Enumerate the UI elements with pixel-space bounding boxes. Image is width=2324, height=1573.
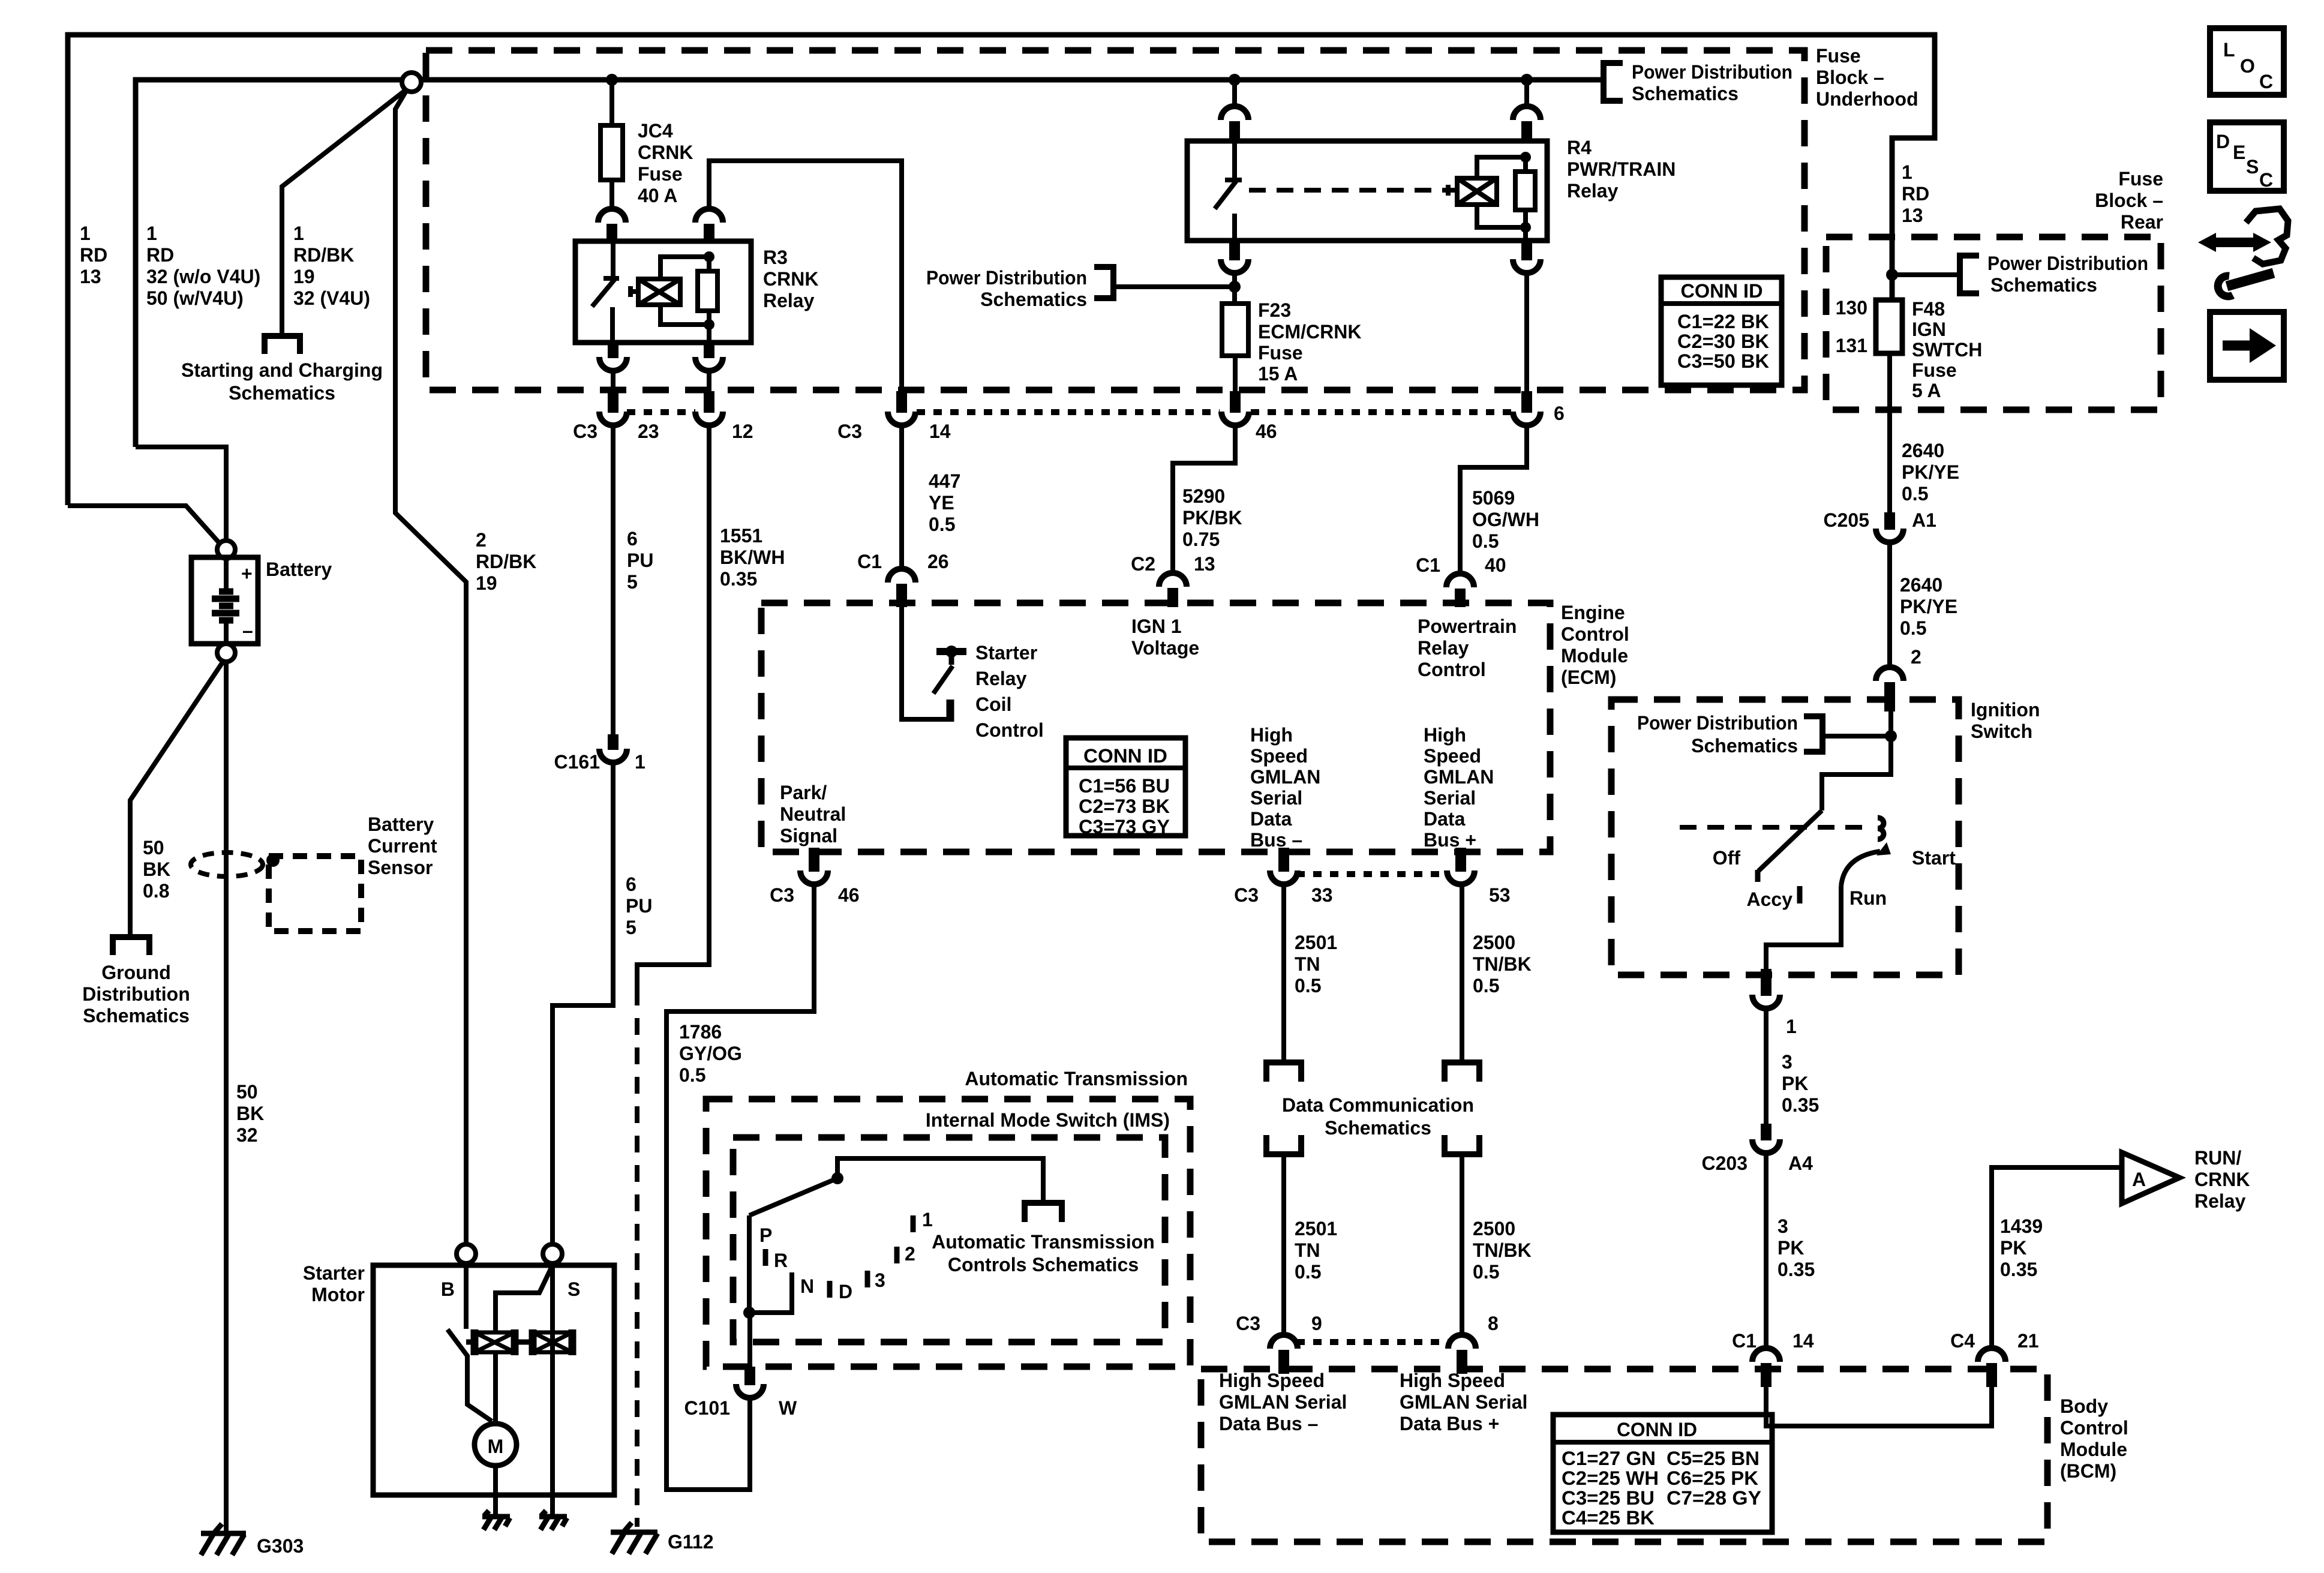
svg-text:JC4: JC4 [638, 120, 673, 142]
svg-text:2640: 2640 [1902, 440, 1944, 461]
svg-text:50: 50 [143, 837, 164, 858]
svg-text:TN/BK: TN/BK [1473, 1239, 1532, 1261]
svg-text:Fuse: Fuse [1258, 342, 1303, 364]
connector 46 at block edge [1221, 391, 1249, 425]
svg-text:GMLAN: GMLAN [1424, 766, 1494, 788]
svg-text:5: 5 [626, 917, 636, 938]
svg-text:14: 14 [1792, 1330, 1814, 1352]
solenoid hold-in winding [533, 1329, 572, 1355]
svg-text:–: – [242, 620, 253, 641]
svg-text:High Speed: High Speed [1400, 1370, 1505, 1391]
svg-text:W: W [779, 1397, 797, 1419]
svg-text:Schematics: Schematics [1691, 735, 1798, 757]
connector C205 A1 [1876, 512, 1903, 542]
svg-text:Data: Data [1250, 808, 1292, 830]
svg-text:0.35: 0.35 [720, 568, 757, 590]
svg-text:32 (V4U): 32 (V4U) [293, 287, 370, 309]
svg-text:F23: F23 [1258, 299, 1291, 321]
svg-text:Module: Module [1561, 645, 1628, 667]
svg-text:GMLAN Serial: GMLAN Serial [1400, 1391, 1527, 1413]
battery positive terminal circle [217, 541, 235, 559]
svg-text:C161: C161 [554, 751, 600, 773]
svg-text:1: 1 [146, 223, 157, 244]
svg-text:Signal: Signal [780, 825, 837, 846]
svg-text:19: 19 [476, 572, 497, 594]
svg-text:Relay: Relay [1418, 637, 1469, 659]
svg-text:M: M [488, 1436, 504, 1457]
svg-text:Speed: Speed [1424, 745, 1481, 767]
battery current sensor box [269, 856, 361, 931]
svg-text:6: 6 [627, 528, 638, 550]
svg-text:Bus +: Bus + [1424, 829, 1476, 851]
contact B shape [1878, 818, 1884, 839]
svg-text:1: 1 [635, 751, 645, 773]
svg-text:Switch: Switch [1971, 721, 2032, 742]
svg-text:Power Distribution: Power Distribution [926, 267, 1087, 289]
off-page bracket power distribution ignition [1804, 716, 1822, 752]
svg-text:GMLAN: GMLAN [1250, 766, 1320, 788]
svg-text:Bus –: Bus – [1250, 829, 1302, 851]
svg-text:C1: C1 [857, 551, 882, 572]
svg-text:(BCM): (BCM) [2060, 1460, 2116, 1482]
svg-text:RUN/: RUN/ [2194, 1147, 2241, 1169]
svg-text:13: 13 [1194, 553, 1215, 575]
svg-text:0.5: 0.5 [679, 1064, 705, 1086]
off-page bracket data comm upper right [1445, 1062, 1479, 1082]
svg-text:IGN: IGN [1912, 319, 1946, 340]
svg-text:1439: 1439 [2000, 1215, 2043, 1237]
svg-text:Starting and Charging: Starting and Charging [181, 359, 383, 381]
ground G112 [611, 1523, 657, 1554]
svg-text:F48: F48 [1912, 298, 1945, 320]
svg-text:Power Distribution: Power Distribution [1637, 712, 1798, 734]
wire JC4 to connector [609, 180, 614, 211]
svg-text:C1=56 BU: C1=56 BU [1079, 775, 1170, 797]
svg-text:2500: 2500 [1473, 1218, 1515, 1239]
wire R3 left pin to block edge [611, 370, 615, 391]
wire 2640 PK/YE 0.5 lower [1887, 540, 1892, 669]
svg-text:B: B [441, 1278, 455, 1300]
svg-text:40 A: 40 A [638, 185, 677, 206]
svg-text:A4: A4 [1788, 1152, 1813, 1174]
svg-text:C3: C3 [1236, 1313, 1260, 1334]
connector R3 left pin bottom [599, 343, 627, 371]
svg-text:8: 8 [1488, 1313, 1499, 1334]
svg-text:D: D [2216, 131, 2230, 152]
svg-text:Control: Control [975, 719, 1044, 741]
node junction F23 tap [1229, 281, 1241, 293]
conn id table underhood [1661, 277, 1782, 385]
connector dotted link buses [1296, 871, 1448, 877]
contact B dashed line [1680, 825, 1873, 830]
wire ignition switch arm feed [1822, 736, 1891, 810]
svg-text:YE: YE [929, 492, 954, 514]
svg-text:Coil: Coil [975, 694, 1011, 715]
fuse JC4 CRNK 40A [600, 125, 623, 180]
svg-text:Engine: Engine [1561, 602, 1625, 623]
svg-text:0.5: 0.5 [1295, 1261, 1321, 1283]
wire 2 RD/BK 19 to starter B [395, 90, 466, 1244]
connector C1 40 at ECM [1446, 574, 1474, 607]
svg-text:13: 13 [1902, 205, 1923, 226]
off-page bracket automatic transmission controls [1025, 1203, 1062, 1222]
automatic transmission dashed box [706, 1099, 1190, 1367]
svg-text:Start: Start [1912, 847, 1956, 869]
motor M [475, 1424, 517, 1466]
IMS selector wire [743, 1158, 1043, 1319]
contact R tick [763, 1249, 768, 1266]
svg-text:1: 1 [80, 223, 91, 244]
svg-text:TN: TN [1295, 1239, 1320, 1261]
svg-text:BK: BK [236, 1103, 264, 1124]
solenoid pull-in winding [466, 1329, 529, 1355]
icon forward arrow box [2210, 312, 2284, 380]
connector C1 14 at BCM [1752, 1348, 1780, 1387]
svg-text:33: 33 [1311, 884, 1333, 906]
svg-text:SWTCH: SWTCH [1912, 339, 1982, 361]
svg-text:C3: C3 [770, 884, 794, 906]
svg-text:0.5: 0.5 [1472, 530, 1499, 552]
svg-text:Control: Control [2060, 1417, 2128, 1439]
svg-text:IGN 1: IGN 1 [1131, 616, 1182, 637]
relay R3 CRNK [575, 241, 751, 343]
connector dotted link C3 [627, 409, 695, 415]
svg-text:G303: G303 [257, 1535, 304, 1557]
node sensor tap dot [266, 854, 280, 867]
wire F23 to block edge [1233, 356, 1238, 391]
svg-text:TN/BK: TN/BK [1473, 953, 1532, 975]
node splice circle on bus [402, 73, 421, 92]
svg-text:Relay: Relay [2194, 1190, 2246, 1212]
svg-text:Serial: Serial [1424, 787, 1476, 809]
svg-text:R4: R4 [1567, 137, 1592, 158]
wire 5069 OG/WH 0.5 [1460, 423, 1527, 575]
svg-text:GMLAN Serial: GMLAN Serial [1219, 1391, 1347, 1413]
wire R4 switch to F23 [1232, 272, 1237, 304]
connector R3 right pin top [695, 209, 723, 242]
ground G303 [201, 1524, 246, 1555]
connector C3 33 at ECM bottom [1270, 848, 1298, 884]
wire diagonal from outer loop to battery positive [68, 506, 222, 546]
contact Accy tick [1797, 886, 1803, 903]
svg-text:0.35: 0.35 [1782, 1094, 1819, 1116]
svg-text:RD: RD [146, 244, 174, 266]
svg-text:C3=50 BK: C3=50 BK [1677, 350, 1769, 372]
connector C3 46 at ECM bottom [800, 848, 828, 884]
svg-text:OG/WH: OG/WH [1472, 509, 1539, 530]
terminal circle S [543, 1244, 562, 1263]
connector C3 9 at BCM [1270, 1335, 1298, 1374]
svg-text:C3: C3 [837, 421, 862, 442]
off-page bracket starting and charging [265, 336, 300, 354]
connector R4 coil pin bottom [1513, 241, 1541, 273]
svg-text:Power Distribution: Power Distribution [1987, 253, 2148, 274]
svg-text:RD: RD [80, 244, 107, 266]
wire 2501 TN 0.5 upper [1281, 882, 1286, 1062]
wire rear tap to bracket [1892, 272, 1960, 277]
svg-text:1551: 1551 [720, 525, 762, 547]
svg-text:R: R [774, 1250, 788, 1271]
connector dotted link 46 to 6 [1251, 409, 1511, 415]
wire bus to JC4 fuse [609, 80, 614, 125]
connector C3 14 at block edge [888, 391, 915, 425]
svg-text:Distribution: Distribution [82, 983, 190, 1005]
battery current sensor clamp ellipse [191, 852, 263, 876]
svg-text:GY/OG: GY/OG [679, 1043, 742, 1064]
fuse F23 ECM/CRNK 15A [1222, 304, 1248, 356]
svg-text:46: 46 [838, 884, 860, 906]
svg-text:RD: RD [1902, 183, 1929, 205]
svg-text:S: S [2246, 156, 2259, 178]
svg-text:RD/BK: RD/BK [476, 551, 536, 572]
svg-text:Fuse: Fuse [1912, 359, 1957, 381]
svg-text:TN: TN [1295, 953, 1320, 975]
off-page bracket power distribution rear [1960, 256, 1979, 293]
svg-text:O: O [2240, 55, 2255, 77]
svg-text:Data: Data [1424, 808, 1466, 830]
wire IMS P to C101 [747, 1313, 752, 1369]
svg-text:CRNK: CRNK [2194, 1169, 2250, 1190]
svg-text:C1: C1 [1416, 554, 1440, 576]
wire 447 YE 0.5 [899, 423, 904, 571]
svg-text:Schematics: Schematics [1990, 274, 2097, 296]
svg-text:0.5: 0.5 [1473, 1261, 1499, 1283]
off-page bracket power distribution at F23 [1094, 267, 1113, 298]
svg-text:C6=25 PK: C6=25 PK [1667, 1467, 1758, 1489]
svg-text:C3=73 GY: C3=73 GY [1079, 816, 1170, 837]
svg-text:ECM/CRNK: ECM/CRNK [1258, 321, 1361, 343]
wire dashed to G112 [635, 989, 639, 1527]
svg-text:Data Bus +: Data Bus + [1400, 1413, 1499, 1434]
svg-text:2500: 2500 [1473, 932, 1515, 953]
connector C1 26 at ECM [888, 569, 915, 607]
wire R3 right pin to block edge [707, 370, 711, 391]
connector dotted link BCM pins [1296, 1339, 1449, 1345]
contact 1 tick [911, 1215, 916, 1232]
connector R4 switch pin top [1221, 106, 1248, 142]
wire 6 PU 5 upper [611, 423, 615, 734]
connector C161 [599, 734, 627, 763]
connector 1 at ignition bottom [1752, 969, 1780, 1008]
off-page bracket power distribution top [1604, 63, 1623, 101]
svg-text:Schematics: Schematics [229, 382, 335, 404]
svg-text:Power Distribution: Power Distribution [1632, 61, 1792, 83]
svg-text:PK/YE: PK/YE [1902, 461, 1959, 483]
svg-text:Relay: Relay [1567, 180, 1619, 202]
svg-text:Fuse: Fuse [2118, 168, 2163, 190]
svg-text:CRNK: CRNK [638, 142, 693, 163]
wire 50 BK 32 battery negative to G303 [224, 662, 229, 1532]
svg-text:C1: C1 [1732, 1330, 1756, 1352]
wire 3 PK 0.35 lower [1764, 1151, 1768, 1350]
svg-text:Park/: Park/ [780, 782, 827, 803]
svg-text:21: 21 [2017, 1330, 2039, 1352]
svg-text:S: S [568, 1278, 580, 1300]
svg-text:C203: C203 [1702, 1152, 1748, 1174]
svg-text:PK: PK [1782, 1073, 1808, 1094]
wire bus to R4 switch pin [1232, 80, 1237, 109]
off-page triangle A run crank relay [2122, 1152, 2179, 1203]
svg-text:0.5: 0.5 [1900, 617, 1926, 639]
svg-text:50: 50 [236, 1081, 258, 1103]
fuse F48 IGN SWTCH 5A [1876, 300, 1902, 353]
svg-text:D: D [839, 1281, 852, 1302]
svg-text:2: 2 [905, 1243, 915, 1265]
svg-text:Control: Control [1561, 623, 1629, 645]
svg-text:1786: 1786 [679, 1021, 722, 1043]
svg-text:Rear: Rear [2121, 211, 2163, 233]
svg-text:Relay: Relay [763, 290, 815, 311]
ignition switch dashed box [1611, 700, 1959, 975]
wire bus to R4 coil pin [1524, 80, 1529, 109]
svg-text:Automatic Transmission: Automatic Transmission [965, 1068, 1188, 1089]
contact 3 tick [865, 1271, 870, 1287]
off-page bracket data comm upper left [1266, 1062, 1301, 1082]
svg-text:Serial: Serial [1250, 787, 1302, 809]
node bus junction at R4 switch [1229, 74, 1241, 86]
svg-text:Battery: Battery [266, 559, 332, 580]
wire 1 RD/BK 19 to starting-charging bracket [282, 91, 405, 335]
wire R3 coil pin over to pin C3 14 [709, 161, 902, 391]
svg-text:12: 12 [732, 421, 753, 442]
svg-text:Run: Run [1849, 887, 1887, 909]
svg-text:0.5: 0.5 [1473, 975, 1499, 996]
svg-text:C5=25 BN: C5=25 BN [1667, 1448, 1759, 1469]
svg-text:PU: PU [626, 895, 652, 917]
wire R4 coil to block edge [1524, 272, 1529, 391]
svg-text:50 (w/V4U): 50 (w/V4U) [146, 287, 244, 309]
svg-text:C2: C2 [1131, 553, 1155, 575]
connector 2 at ignition switch [1876, 667, 1903, 712]
starter motor box [373, 1265, 614, 1495]
svg-text:Internal Mode Switch (IMS): Internal Mode Switch (IMS) [926, 1109, 1170, 1131]
svg-text:1: 1 [1902, 161, 1912, 183]
arrowhead Start [1876, 842, 1891, 855]
svg-text:BK/WH: BK/WH [720, 547, 785, 568]
svg-text:Accy: Accy [1747, 888, 1793, 910]
connector C203 A4 [1752, 1124, 1780, 1153]
svg-text:Data Communication: Data Communication [1282, 1094, 1474, 1116]
engine control module ECM dashed box [761, 603, 1550, 852]
wire S winding to ground [550, 1263, 555, 1514]
terminal circle B [457, 1244, 476, 1263]
connector 8 at BCM [1448, 1335, 1476, 1374]
svg-text:C3: C3 [1234, 884, 1259, 906]
svg-text:A1: A1 [1912, 509, 1936, 531]
svg-text:Body: Body [2060, 1395, 2108, 1417]
svg-text:0.5: 0.5 [1902, 483, 1928, 505]
svg-text:Starter: Starter [303, 1262, 365, 1284]
connector C101 W [736, 1367, 764, 1398]
svg-text:L: L [2223, 39, 2235, 61]
fuse block rear dashed box [1826, 237, 2161, 410]
svg-text:131: 131 [1836, 335, 1867, 356]
svg-text:2501: 2501 [1295, 1218, 1337, 1239]
svg-text:9: 9 [1311, 1313, 1322, 1334]
svg-text:+: + [241, 563, 253, 584]
svg-text:High: High [1424, 724, 1466, 746]
svg-text:Block –: Block – [1816, 67, 1884, 88]
wire 2500 TN/BK 0.5 upper [1460, 882, 1464, 1062]
svg-text:Underhood: Underhood [1816, 88, 1918, 110]
svg-text:Speed: Speed [1250, 745, 1308, 767]
svg-text:Relay: Relay [975, 668, 1027, 689]
fuse block underhood dashed box [426, 50, 1804, 390]
svg-text:CONN ID: CONN ID [1617, 1419, 1697, 1440]
off-page bracket data comm lower left [1266, 1135, 1301, 1154]
svg-text:A: A [2132, 1169, 2146, 1190]
contact 2 tick [894, 1247, 900, 1263]
icon LOC box [2210, 28, 2284, 95]
svg-text:Neutral: Neutral [780, 803, 846, 825]
svg-text:5069: 5069 [1472, 487, 1515, 509]
svg-text:C4=25 BK: C4=25 BK [1562, 1507, 1655, 1529]
svg-text:0.5: 0.5 [1295, 975, 1321, 996]
svg-text:Battery: Battery [368, 813, 434, 835]
ground starter solenoid [539, 1511, 567, 1530]
svg-text:3: 3 [1782, 1051, 1792, 1073]
starter solenoid switch from B [448, 1265, 492, 1421]
starter relay coil control switch [902, 607, 966, 722]
wire BCM link C1 to C4 [1766, 1387, 1992, 1426]
svg-text:RD/BK: RD/BK [293, 244, 354, 266]
svg-text:BK: BK [143, 858, 170, 880]
wire 1551 BK/WH 0.35 [637, 423, 709, 989]
svg-text:13: 13 [80, 266, 101, 287]
svg-text:PK/BK: PK/BK [1182, 507, 1242, 529]
svg-text:C7=28 GY: C7=28 GY [1667, 1487, 1761, 1509]
svg-text:C205: C205 [1824, 509, 1870, 531]
icon DESC box [2210, 122, 2284, 191]
svg-text:40: 40 [1485, 554, 1506, 576]
svg-text:0.35: 0.35 [1777, 1259, 1815, 1280]
starter solenoid feed from S [496, 1265, 553, 1334]
svg-text:(ECM): (ECM) [1561, 667, 1616, 688]
wire pin2 into switch [1888, 708, 1893, 736]
svg-text:Ignition: Ignition [1971, 699, 2040, 721]
body control module dashed box [1201, 1369, 2047, 1542]
svg-text:0.5: 0.5 [929, 514, 955, 535]
svg-text:High: High [1250, 724, 1293, 746]
wire main bus 1 RD [136, 80, 1603, 447]
svg-text:1: 1 [1786, 1016, 1797, 1037]
connector dotted link C3 14 to 46 [917, 409, 1220, 415]
svg-text:Block –: Block – [2095, 190, 2163, 211]
wire 50 BK 0.8 to ground distribution [130, 662, 223, 936]
svg-text:5: 5 [627, 571, 638, 593]
svg-text:C101: C101 [684, 1397, 731, 1419]
conn id table BCM [1553, 1415, 1772, 1532]
svg-text:447: 447 [929, 470, 960, 492]
connector 6 at block edge [1513, 391, 1541, 425]
connector R3 right pin bottom [695, 343, 723, 371]
wire battery positive feed 1 RD 13 (outer loop) [68, 35, 1935, 505]
svg-text:P: P [759, 1224, 772, 1246]
wire Run contact down [1766, 886, 1841, 972]
wire 1439 PK 0.35 to run crank relay [1992, 1167, 2119, 1350]
svg-text:15 A: 15 A [1258, 363, 1298, 385]
svg-text:N: N [800, 1275, 814, 1297]
svg-text:Sensor: Sensor [368, 857, 433, 878]
svg-text:32: 32 [236, 1124, 258, 1146]
svg-text:CONN ID: CONN ID [1083, 745, 1167, 767]
wire motor to ground [493, 1466, 498, 1514]
svg-text:23: 23 [638, 421, 659, 442]
svg-text:R3: R3 [763, 247, 788, 268]
conn id table ECM [1066, 738, 1185, 837]
node bus junction at JC4 [606, 74, 618, 86]
svg-text:G112: G112 [668, 1531, 714, 1553]
